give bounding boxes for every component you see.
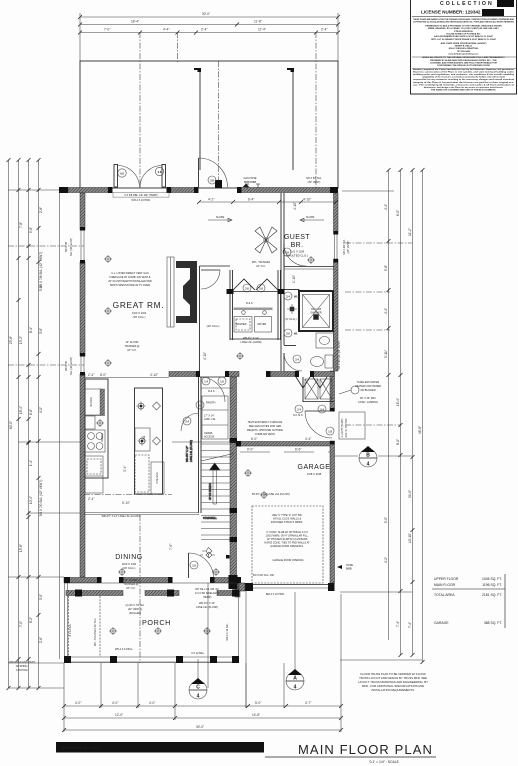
svg-text:SLOPE: SLOPE [216, 216, 225, 219]
svg-text:1'-4": 1'-4" [29, 460, 33, 466]
svg-text:integrity of the Plans if, bey: integrity of the Plans if, beyond what t… [413, 81, 514, 84]
svg-text:9'-0": 9'-0" [247, 448, 253, 452]
svg-text:60'-0": 60'-0" [9, 421, 13, 429]
kitchen/dining flush beam y 513 [84, 512, 199, 514]
B/4 [334, 455, 358, 457]
coat closet (entry) [201, 387, 233, 389]
svg-text:3/8 X 7/8 SIA. (42" VENT): 3/8 X 7/8 SIA. (42" VENT) [39, 252, 43, 289]
svg-text:4'-0": 4'-0" [112, 701, 118, 705]
svg-text:11'-8": 11'-8" [254, 20, 262, 24]
svg-text:6 X 12 BAL: 6 X 12 BAL [69, 623, 72, 636]
furnace closet walls [302, 377, 304, 402]
furnace bifold doors [296, 377, 310, 388]
svg-text:LAMI. LSL: LAMI. LSL [204, 418, 216, 421]
island [135, 388, 163, 494]
svg-text:8'-0": 8'-0" [396, 439, 400, 445]
centerline x=177 [177, 32, 179, 62]
A/4 [294, 592, 296, 672]
svg-text:5'-2": 5'-2" [39, 285, 43, 291]
svg-text:INSTALLATION REQUIREMENTS.: INSTALLATION REQUIREMENTS. [371, 688, 415, 692]
svg-text:7'-0": 7'-0" [104, 28, 110, 32]
svg-text:2'-4": 2'-4" [88, 497, 94, 501]
svg-text:8'-2": 8'-2" [29, 617, 33, 623]
svg-text:4'-2": 4'-2" [384, 557, 388, 563]
stair/entry west wall x 198..201 (y 377..513) [198, 377, 200, 513]
top wall of house y 187..193 with openings [68, 188, 112, 193]
svg-text:14" FLOOR: 14" FLOOR [126, 341, 139, 344]
svg-text:SIA. (42" VENT): SIA. (42" VENT) [70, 357, 73, 375]
svg-text:REFRIG: REFRIG [90, 397, 93, 407]
svg-text:5/8 X 4/0 SIA.: 5/8 X 4/0 SIA. [343, 239, 346, 255]
svg-text:6 X 12 BAL.: 6 X 12 BAL. [191, 652, 205, 655]
svg-text:RETAINED BY ALAN MASCORD DESIG: RETAINED BY ALAN MASCORD DESIGN ASSOCIAT… [430, 59, 497, 62]
svg-text:4: 4 [197, 694, 200, 700]
svg-text:FOOTING: FOOTING [16, 669, 27, 672]
hall door from great rm [201, 269, 220, 271]
svg-text:5'-8": 5'-8" [29, 227, 33, 233]
svg-text:THE SAME IS IN LICENSING AND U: THE SAME IS IN LICENSING AND USE OF THES… [431, 89, 497, 92]
svg-text:16" O.C.: 16" O.C. [126, 587, 136, 590]
porch dashed joist lines [68, 596, 70, 657]
right wall x 333.5..338 top section (guest br) [334, 193, 339, 234]
svg-text:2.4: 2.4 [295, 359, 299, 362]
svg-text:C: C [196, 685, 200, 691]
svg-text:4'-4": 4'-4" [384, 204, 388, 210]
svg-text:4'-2": 4'-2" [208, 198, 214, 202]
svg-text:TRUSSES @: TRUSSES @ [123, 583, 139, 586]
dim row 1 (30'-0") [80, 16, 338, 18]
svg-text:5'-8": 5'-8" [384, 265, 388, 271]
svg-text:KELLY DESIGN & DRAFTING: KELLY DESIGN & DRAFTING [449, 47, 479, 50]
right wall garage section x 330..334.5 [330, 371, 335, 411]
svg-text:ACCESS: ACCESS [204, 436, 215, 439]
svg-text:4'-0": 4'-0" [39, 407, 43, 413]
svg-text:4'-10": 4'-10" [293, 202, 297, 210]
svg-text:USE ½" TYPE 'X' GYP. BD.: USE ½" TYPE 'X' GYP. BD. [272, 513, 303, 517]
svg-text:1.6: 1.6 [220, 381, 224, 384]
shower [299, 291, 333, 331]
svg-text:16" O.C.: 16" O.C. [127, 349, 137, 352]
svg-text:MAIN FLOOR PLAN: MAIN FLOOR PLAN [298, 742, 433, 757]
guest br south wall y 266 [284, 266, 334, 268]
svg-text:LSSE LSL (FLUSH): LSSE LSL (FLUSH) [190, 440, 193, 462]
svg-text:4: 4 [294, 685, 297, 691]
svg-text:GARAGE: GARAGE [298, 464, 331, 471]
svg-text:R & S: R & S [208, 390, 215, 393]
pantry shelves [202, 396, 228, 439]
laundry walls x 229..232, 278..281 [229, 270, 231, 340]
svg-text:2'-6": 2'-6" [39, 637, 43, 643]
svg-text:14" FLOOR: 14" FLOOR [125, 579, 138, 582]
svg-text:11'-4": 11'-4" [258, 28, 266, 32]
svg-text:COLLECTION: COLLECTION [440, 1, 494, 7]
svg-text:MFR'S SPECS/CODE W/ TV OVER: MFR'S SPECS/CODE W/ TV OVER [110, 284, 150, 287]
svg-text:3/8 X 7/0 SIA. (42" VENT): 3/8 X 7/0 SIA. (42" VENT) [39, 480, 43, 517]
hall door to bath area [200, 377, 225, 402]
svg-text:20" FLUSH HEARTH INSTALLED PER: 20" FLUSH HEARTH INSTALLED PER [108, 280, 152, 283]
svg-text:BT-3½" X 14" LSSE LSL (FLUSH): BT-3½" X 14" LSSE LSL (FLUSH) [252, 492, 290, 496]
svg-text:COPYRIGHTED (C) 2002 ALAN MAS: COPYRIGHTED (C) 2002 ALAN MASCORD DESIGN… [413, 21, 514, 24]
svg-text:GAS HOSE: GAS HOSE [243, 177, 256, 180]
svg-text:2'-4": 2'-4" [201, 28, 207, 32]
svg-text:30'-0": 30'-0" [202, 12, 210, 16]
svg-text:12'-0": 12'-0" [115, 713, 123, 717]
svg-text:1.9: 1.9 [192, 565, 196, 568]
svg-text:21/8 X 23/8: 21/8 X 23/8 [307, 472, 322, 476]
svg-text:10'-4": 10'-4" [29, 496, 33, 504]
svg-text:TOTAL AREA: TOTAL AREA [434, 593, 455, 597]
svg-text:2.6: 2.6 [286, 333, 290, 336]
svg-text:1045 SQ. FT.: 1045 SQ. FT. [482, 577, 502, 581]
svg-text:7'-8": 7'-8" [19, 222, 23, 228]
svg-text:MTL. TRUSSES: MTL. TRUSSES [252, 261, 270, 264]
bottom wall of house (porch north) y 577..583 [64, 578, 100, 583]
svg-text:8'-0": 8'-0" [100, 373, 106, 377]
svg-text:(19' CLG.): (19' CLG.) [133, 315, 146, 319]
extension verticals [79, 13, 81, 61]
svg-text:However, construction of the P: However, construction of the Plans is si… [413, 70, 515, 73]
svg-text:30'-0": 30'-0" [196, 725, 204, 729]
entry/dining line y 540 [201, 539, 230, 541]
svg-text:6'-4": 6'-4" [248, 198, 254, 202]
bath walls [298, 289, 300, 291]
svg-text:2.4: 2.4 [286, 296, 290, 299]
svg-text:4'-0": 4'-0" [149, 701, 155, 705]
svg-text:W5-4 X 12 BAL: W5-4 X 12 BAL [226, 623, 229, 641]
svg-text:W5-4 X 12 BAL.: W5-4 X 12 BAL. [115, 648, 133, 651]
tick marks [78, 15, 340, 35]
svg-text:SIA. (42" VENT): SIA. (42" VENT) [70, 238, 73, 256]
dim row 2 [80, 24, 338, 26]
svg-text:1.4: 1.4 [204, 381, 208, 384]
svg-text:SHOWER: SHOWER [310, 312, 321, 315]
svg-text:CONFORMING THE DESIGN, IN ITS: CONFORMING THE DESIGN, IN ITS REVISED FO… [437, 65, 491, 67]
svg-text:MAIN FLOOR: MAIN FLOOR [434, 583, 456, 587]
svg-text:2.4: 2.4 [297, 409, 301, 412]
pantry door [181, 413, 199, 431]
garage north wall y 441..446 [236, 442, 330, 447]
porch deck-edge band [66, 591, 123, 596]
svg-text:6 X 6/8 DBL. FR. DR. (TEMP): 6 X 6/8 DBL. FR. DR. (TEMP) [124, 194, 157, 197]
svg-text:5'-0": 5'-0" [384, 517, 388, 523]
svg-text:WL: WL [294, 333, 298, 336]
svg-text:1/4 X 8/0 SIDELIGHT: 1/4 X 8/0 SIDELIGHT [195, 592, 219, 595]
svg-text:2181 SQ. FT.: 2181 SQ. FT. [482, 593, 502, 597]
svg-text:(19' CLG.): (19' CLG.) [123, 566, 136, 570]
svg-text:A: A [293, 676, 297, 682]
svg-text:3/8 X 7/8: 3/8 X 7/8 [65, 241, 68, 252]
svg-text:WASHER: WASHER [236, 323, 247, 326]
svg-text:LSSE LSL (GARD): LSSE LSL (GARD) [240, 341, 261, 344]
svg-text:23'-8": 23'-8" [9, 336, 13, 344]
svg-text:4'-4": 4'-4" [305, 437, 311, 441]
svg-text:MASCORD No. 2181: MASCORD No. 2181 [62, 745, 101, 750]
svg-text:LICENSE NUMBER: 129342: LICENSE NUMBER: 129342 [421, 10, 481, 15]
svg-text:MTL. TRUSSES 24" O.C.: MTL. TRUSSES 24" O.C. [94, 618, 97, 647]
svg-text:3'-4": 3'-4" [123, 466, 127, 472]
svg-text:(VAULTED CLG.): (VAULTED CLG.) [286, 254, 308, 258]
svg-text:11'-2": 11'-2" [408, 228, 412, 236]
svg-text:UPPER FLOOR: UPPER FLOOR [434, 577, 459, 581]
svg-text:2'-8": 2'-8" [39, 207, 43, 213]
dim row 3 [80, 32, 338, 34]
svg-text:6.8: 6.8 [120, 173, 124, 176]
svg-text:(9' CLG.): (9' CLG.) [285, 317, 296, 321]
svg-text:(42" VENTS): (42" VENTS) [128, 608, 143, 611]
svg-text:8'-4": 8'-4" [29, 327, 33, 333]
svg-text:W/ SPIKE /: W/ SPIKE / [16, 665, 29, 668]
svg-text:4'-7": 4'-7" [305, 701, 311, 705]
double french door top [114, 165, 118, 188]
svg-text:PORCH: PORCH [142, 618, 171, 627]
svg-text:24" O.C.: 24" O.C. [256, 265, 266, 268]
svg-text:2.8: 2.8 [210, 180, 214, 183]
svg-text:2.6: 2.6 [245, 288, 249, 291]
svg-text:HIGH EFFICIENCY FURNACE: HIGH EFFICIENCY FURNACE [248, 421, 283, 424]
svg-text:4'-10": 4'-10" [303, 198, 311, 202]
garage bottom (door opening) thin lines [250, 584, 334, 586]
svg-text:34'-0": 34'-0" [408, 490, 412, 498]
C/4 [197, 659, 199, 681]
svg-text:4'-4": 4'-4" [163, 28, 169, 32]
svg-text:UP 15 RISERS: UP 15 RISERS [209, 483, 212, 500]
svg-text:10'-10": 10'-10" [408, 533, 412, 543]
svg-text:46'-8": 46'-8" [418, 426, 422, 434]
svg-text:SEE GEN NOTES FOR GEN: SEE GEN NOTES FOR GEN [249, 425, 282, 428]
svg-text:BIBB BIBB: BIBB BIBB [244, 181, 256, 184]
svg-text:2.4: 2.4 [185, 421, 189, 424]
svg-text:WL: WL [294, 296, 298, 299]
svg-text:7'-6": 7'-6" [169, 544, 173, 550]
svg-text:18'-4": 18'-4" [19, 406, 23, 414]
svg-text:BIBB: BIBB [346, 568, 352, 571]
stair east wall x 233..236 (y 377..513) [230, 377, 237, 583]
svg-text:STAIRWELL: STAIRWELL [203, 517, 218, 520]
svg-text:4: 4 [367, 462, 370, 468]
svg-text:SITE: LOT 66 GRAND POINTE PHAS: SITE: LOT 66 GRAND POINTE PHASE II HOLT … [431, 38, 497, 41]
svg-text:B: B [366, 453, 370, 459]
svg-text:WRAPPED END POST: WRAPPED END POST [9, 661, 36, 664]
svg-text:HI-LINE HOMES OF FLORIDA INC: HI-LINE HOMES OF FLORIDA INC [446, 33, 481, 36]
svg-text:5'-10": 5'-10" [122, 501, 130, 505]
svg-text:COMB AIR VENT): COMB AIR VENT) [255, 433, 276, 436]
concrete landing outside garage [339, 412, 365, 439]
svg-text:(MULLED): (MULLED) [129, 612, 141, 615]
svg-text:388 SQ. FT.: 388 SQ. FT. [484, 621, 502, 625]
laundry bifold doors [233, 279, 278, 290]
svg-text:DINING: DINING [115, 554, 143, 561]
front door (into dining) [188, 553, 190, 578]
upper-floor overhang line [59, 190, 61, 659]
svg-text:Builders prepared the Plans ca: Builders prepared the Plans carefully fo… [413, 68, 514, 71]
svg-text:'0-1' = 1/4" : SCALE: '0-1' = 1/4" : SCALE [369, 760, 400, 764]
svg-text:2'-4": 2'-4" [88, 373, 94, 377]
svg-text:SLOPE: SLOPE [306, 216, 315, 219]
svg-text:6'-6": 6'-6" [29, 409, 33, 415]
svg-text:LICENSEE, AND THEIR AGENTS, AR: LICENSEE, AND THEIR AGENTS, ARE FULLY RE… [430, 61, 497, 64]
svg-text:2.6: 2.6 [259, 288, 263, 291]
svg-text:use. The underlying all mater: use. The underlying all materials, measu… [413, 83, 514, 86]
svg-text:5/8 X 4/0 SIA. (24" VENT): 5/8 X 4/0 SIA. (24" VENT) [338, 340, 341, 369]
svg-text:WB-3½" X 14" LSSE LSL (FLUSH): WB-3½" X 14" LSSE LSL (FLUSH) [102, 514, 141, 518]
svg-text:6401 ANYWHERE ROAD SUITE 4, HO: 6401 ANYWHERE ROAD SUITE 4, HOLT BEACH, … [434, 35, 494, 38]
svg-text:THESE PLANS ARE BASED UPON THE: THESE PLANS ARE BASED UPON THE ORIGINAL … [413, 18, 514, 21]
svg-text:16'-4": 16'-4" [396, 398, 400, 406]
guest ceiling fan [255, 227, 277, 253]
svg-text:LSSE LSL (FLUSH): LSSE LSL (FLUSH) [196, 606, 218, 609]
svg-text:2'-4": 2'-4" [321, 28, 327, 32]
svg-text:5'-11": 5'-11" [384, 350, 388, 358]
svg-text:18'-4": 18'-4" [131, 20, 139, 24]
svg-text:CONC. LANDING: CONC. LANDING [358, 401, 378, 404]
svg-text:7'-0": 7'-0" [19, 621, 23, 627]
svg-text:36" X 36" MIN.: 36" X 36" MIN. [360, 397, 377, 400]
svg-text:S.C./S.C.: S.C./S.C. [293, 414, 304, 417]
furnace closet boxes [305, 379, 318, 399]
svg-text:TANKLESS WATER: TANKLESS WATER [357, 381, 380, 384]
vanity + sink [316, 333, 334, 348]
svg-text:PANTRY: PANTRY [206, 402, 216, 405]
svg-text:WD-3½" X 14": WD-3½" X 14" [185, 446, 189, 462]
svg-text:GARAGE DOOR OPENING: GARAGE DOOR OPENING [272, 559, 303, 562]
svg-text:AND THEIR HOME PROFESSIONAL (A: AND THEIR HOME PROFESSIONAL (AGENT) [441, 42, 487, 45]
svg-text:WD-3½" X 14": WD-3½" X 14" [199, 601, 215, 605]
svg-text:EXPOSED STRUCT. MBRS.: EXPOSED STRUCT. MBRS. [271, 521, 303, 524]
svg-text:GUEST: GUEST [284, 234, 310, 241]
svg-text:2.6: 2.6 [198, 405, 202, 408]
svg-text:adaptability of the structure,: adaptability of the structure, is entire… [422, 76, 505, 79]
svg-text:3/8 X 7/0: 3/8 X 7/0 [65, 360, 68, 371]
interior: hallway south wall y 371..377 [169, 372, 196, 377]
horizontal connector lines from plan to left dims [8, 189, 64, 191]
toilet [325, 355, 333, 368]
gas/hose bibb at top wall [245, 184, 249, 188]
svg-text:WERE GRANTED, BY LICENSE, TO (: WERE GRANTED, BY LICENSE, TO (OUR CLIENT… [428, 27, 499, 30]
svg-text:3'-6": 3'-6" [39, 328, 43, 334]
svg-text:BR.: BR. [291, 242, 304, 249]
svg-text:GARAGE DOOR OPENINGS.: GARAGE DOOR OPENINGS. [270, 545, 304, 548]
svg-text:SHELVES: SHELVES [156, 472, 159, 484]
wall jog down to garage line [235, 583, 240, 597]
guest closet door [284, 244, 306, 266]
guest br west wall x 270..274 (y 193..266) [280, 193, 282, 371]
slope arrows [208, 216, 324, 222]
centerline x=316 [315, 32, 317, 188]
svg-text:PERMISSION TO BUILD PROVIDED T: PERMISSION TO BUILD PROVIDED TO THE ORIG… [425, 24, 502, 27]
svg-text:7'-4": 7'-4" [408, 622, 412, 628]
entry door top (swing out) [198, 158, 200, 187]
svg-text:1196 SQ. FT.: 1196 SQ. FT. [482, 583, 502, 587]
svg-text:6'-0": 6'-0" [251, 437, 257, 441]
svg-text:WH-4 X 10 HDR.: WH-4 X 10 HDR. [131, 199, 150, 202]
svg-text:dimensions, and design in the: dimensions, and design in the Plans for … [424, 86, 504, 89]
svg-text:RANGE: RANGE [101, 433, 104, 442]
svg-text:OR BUILDER: OR BUILDER [360, 389, 375, 392]
left wall window gaps (thin sill lines) [80, 230, 82, 262]
svg-text:7'-4": 7'-4" [396, 621, 400, 627]
svg-text:GARAGE: GARAGE [434, 621, 449, 625]
svg-text:13'-2": 13'-2" [19, 336, 23, 344]
svg-text:14'-8": 14'-8" [252, 713, 260, 717]
svg-text:5/8 X 5/8 SIA.: 5/8 X 5/8 SIA. [306, 177, 322, 180]
svg-text:U.L. LISTED DIRECT VENT GAS: U.L. LISTED DIRECT VENT GAS [111, 272, 149, 275]
connectors [342, 190, 394, 192]
svg-text:(10' CLG.): (10' CLG.) [207, 324, 220, 328]
svg-text:8/0 TALL 1R. DR. W/: 8/0 TALL 1R. DR. W/ [195, 588, 218, 591]
svg-text:1-LIGHT (TEMP): 1-LIGHT (TEMP) [341, 418, 344, 437]
svg-text:R & S: R & S [246, 302, 253, 305]
svg-text:building codes and regulations: building codes and regulations, and vari… [413, 73, 515, 76]
svg-text:(TEMP): (TEMP) [203, 596, 212, 599]
garage man door [305, 410, 332, 412]
svg-text:6'-6": 6'-6" [295, 448, 301, 452]
svg-text:6.8: 6.8 [158, 171, 162, 174]
svg-text:1'-10": 1'-10" [292, 275, 296, 283]
svg-text:4'-4": 4'-4" [384, 308, 388, 314]
svg-text:15'-6": 15'-6" [19, 544, 23, 552]
svg-text:WHILE ALL RIGHTS TO THE ORIGIN: WHILE ALL RIGHTS TO THE ORIGINAL DESIGN … [422, 56, 505, 59]
bath door [284, 353, 302, 371]
left wall x 80..84 [80, 193, 85, 230]
svg-text:3'-0": 3'-0" [39, 594, 43, 600]
svg-text:1.8: 1.8 [328, 431, 332, 434]
svg-text:DRYER: DRYER [258, 323, 267, 326]
svg-text:www.kellydesigndrafting.com: www.kellydesigndrafting.com [448, 52, 478, 55]
svg-text:2.4: 2.4 [320, 409, 324, 412]
svg-text:responsible for any variances: responsible for any variances resulting … [413, 78, 514, 81]
svg-text:REQMTS. (PROVIDE OUTSIDE: REQMTS. (PROVIDE OUTSIDE [247, 429, 283, 432]
svg-text:6'-0": 6'-0" [396, 210, 400, 216]
svg-text:5'-0": 5'-0" [255, 701, 261, 705]
svg-text:4'-10": 4'-10" [150, 373, 158, 377]
svg-text:4'-10": 4'-10" [203, 352, 207, 360]
svg-text:WB-3½" X 14": WB-3½" X 14" [243, 336, 259, 340]
svg-text:(30" VENT): (30" VENT) [308, 181, 321, 184]
svg-text:4'-0": 4'-0" [75, 701, 81, 705]
svg-text:HEATER FOR OWNER: HEATER FOR OWNER [355, 385, 381, 388]
svg-text:BM-4 X 10 HDR.: BM-4 X 10 HDR. [266, 593, 285, 596]
svg-text:M.O. 9L TO HDR: M.O. 9L TO HDR [345, 418, 348, 437]
svg-text:FIREPLACE W/ COMB. AIR VENT &: FIREPLACE W/ COMB. AIR VENT & [110, 276, 151, 279]
centerline x=140 [139, 32, 141, 188]
svg-text:8/0 X 8/0 CUL. DR.: 8/0 X 8/0 CUL. DR. [253, 574, 275, 577]
svg-text:GREAT RM.: GREAT RM. [113, 300, 165, 310]
svg-text:(30" VENT): (30" VENT) [347, 240, 350, 253]
svg-text:TRUSSES @: TRUSSES @ [124, 345, 140, 348]
svg-text:(2) 3/0 X 7/0 SIA.: (2) 3/0 X 7/0 SIA. [125, 604, 144, 607]
